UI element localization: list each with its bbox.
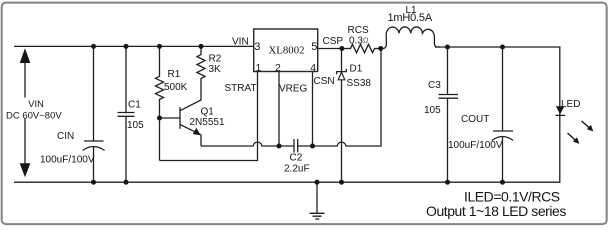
- svg-text:105: 105: [127, 120, 144, 131]
- svg-text:SS38: SS38: [347, 78, 372, 89]
- svg-text:500K: 500K: [164, 82, 188, 93]
- svg-text:C1: C1: [128, 99, 141, 110]
- svg-text:100uF/100V: 100uF/100V: [448, 140, 503, 151]
- svg-text:3K: 3K: [209, 64, 222, 75]
- svg-text:CIN: CIN: [57, 131, 74, 142]
- svg-text:COUT: COUT: [461, 114, 489, 125]
- svg-text:R2: R2: [209, 54, 222, 65]
- svg-text:Output 1~18 LED series: Output 1~18 LED series: [426, 203, 566, 219]
- svg-text:2.2uF: 2.2uF: [284, 164, 310, 175]
- svg-text:100uF/100V: 100uF/100V: [40, 155, 95, 166]
- svg-text:C3: C3: [428, 80, 441, 91]
- svg-text:XL8002: XL8002: [269, 45, 305, 57]
- svg-text:VIN: VIN: [28, 99, 44, 109]
- svg-text:4: 4: [310, 62, 316, 74]
- svg-text:2: 2: [275, 62, 281, 74]
- svg-text:1: 1: [256, 62, 262, 74]
- svg-text:RCS: RCS: [348, 25, 369, 36]
- svg-text:DC 60V~80V: DC 60V~80V: [6, 111, 62, 122]
- svg-text:VIN: VIN: [232, 37, 249, 48]
- svg-text:STRAT: STRAT: [225, 83, 257, 94]
- svg-text:105: 105: [424, 105, 441, 116]
- svg-text:CSP: CSP: [323, 36, 344, 47]
- svg-text:1mH0.5A: 1mH0.5A: [388, 12, 433, 24]
- svg-text:VREG: VREG: [279, 84, 308, 95]
- svg-text:2N5551: 2N5551: [190, 117, 225, 128]
- svg-text:LED: LED: [561, 99, 580, 110]
- svg-text:Q1: Q1: [201, 107, 215, 118]
- svg-text:5: 5: [311, 41, 317, 53]
- svg-text:ILED=0.1V/RCS: ILED=0.1V/RCS: [464, 189, 560, 205]
- svg-text:D1: D1: [350, 64, 363, 75]
- svg-text:CSN: CSN: [314, 76, 335, 87]
- svg-text:C2: C2: [290, 153, 303, 164]
- svg-text:R1: R1: [168, 69, 181, 80]
- svg-text:3: 3: [254, 41, 260, 53]
